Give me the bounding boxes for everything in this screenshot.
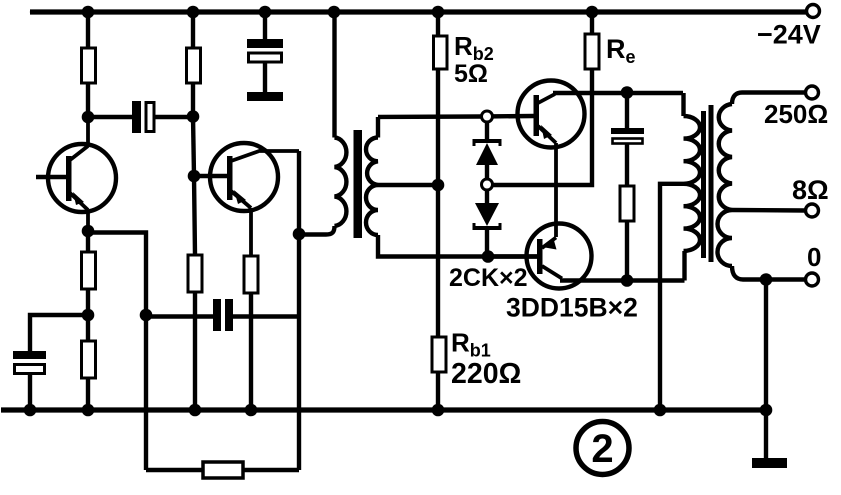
transistor Q1 [36, 117, 116, 232]
node Q1 collector [82, 111, 95, 124]
transformer T1 secondary [366, 117, 538, 257]
node RC bottom [621, 274, 634, 287]
wire R2 node to Q2 base node [193, 116, 194, 176]
wire 0 to ground [764, 280, 768, 459]
node Q4 base [482, 250, 495, 263]
node Q2 collector / transformer [293, 228, 306, 241]
node T1 primary rail [328, 6, 341, 19]
node C5 bottom rail [24, 404, 37, 417]
terminal 250ohm [806, 86, 819, 99]
wire Q3 collector [553, 91, 683, 95]
transformer T2 secondary [718, 93, 807, 280]
capacitor C2 coupling [132, 101, 193, 133]
terminal 0 [806, 273, 819, 286]
resistor Rb1 [432, 185, 446, 410]
resistor R1 (Q1 collector load) [82, 12, 96, 117]
ground bar C1 [247, 92, 283, 101]
svg-text:−24V: −24V [757, 20, 821, 50]
node R3/R4 junction [82, 309, 95, 322]
node T2 tap ground [654, 404, 667, 417]
capacitor C3 [213, 299, 233, 331]
resistor R7 [620, 186, 634, 281]
transformer T1 primary [299, 12, 346, 235]
ground symbol [752, 458, 787, 468]
node D1/D2 midpoint [482, 179, 493, 190]
node ground rail [760, 404, 773, 417]
capacitor C5 electrolytic bypass [13, 351, 46, 410]
wire bias line to Re [492, 69, 592, 185]
circled figure number 2 [576, 422, 629, 475]
transformer T2 core [701, 111, 706, 258]
terminal 8ohm [806, 204, 819, 217]
node R6 bottom rail [245, 404, 258, 417]
wire rail left arrow end [29, 10, 46, 15]
wire series RC branch [146, 314, 299, 318]
node secondary 0 junction [760, 273, 773, 286]
transistor Q2 [194, 143, 299, 256]
resistor Re [585, 12, 599, 69]
wire top supply rail [30, 9, 806, 14]
wire Q1 emitter to feedback column [88, 233, 146, 471]
wire bypass branch [30, 315, 88, 351]
node feedback column [140, 309, 153, 322]
transistor Q3 [518, 81, 585, 238]
node C1 rail [259, 6, 272, 19]
svg-text:8Ω: 8Ω [792, 175, 829, 205]
node RC top [621, 86, 634, 99]
resistor R4 (Q1 emitter lower) [82, 315, 96, 410]
svg-text:3DD15B×2: 3DD15B×2 [506, 293, 638, 323]
capacitor C4 [611, 93, 644, 187]
node C2 right [187, 110, 200, 123]
svg-text:2: 2 [591, 427, 613, 471]
wire Q3 base [481, 114, 534, 119]
resistor R5 (Q2 base lower) [188, 176, 202, 410]
node R4 bottom rail [82, 404, 95, 417]
wire Q1 collector to cap [88, 115, 132, 119]
resistor R2 (Q2 base upper) [187, 12, 201, 116]
diode D1 [474, 122, 500, 179]
node R2 rail [187, 6, 200, 19]
node Rb1 bottom rail [432, 404, 445, 417]
diode D2 [474, 190, 500, 251]
resistor R6 (Q2 emitter) [244, 256, 258, 410]
wire Q2 collector down [297, 151, 301, 470]
node center tap bias [432, 179, 445, 192]
transformer T2 primary [660, 93, 700, 410]
wire feedback bottom [146, 468, 299, 472]
terminal -24V [807, 5, 820, 18]
node R1 rail [82, 6, 95, 19]
svg-text:250Ω: 250Ω [764, 99, 828, 129]
node Q2 base [188, 170, 201, 183]
svg-text:Re: Re [606, 34, 636, 67]
wire bottom ground rail [1, 407, 766, 412]
node Q1 emitter [82, 225, 95, 238]
wire Q4 collector [560, 278, 685, 282]
resistor R3 (Q1 emitter upper) [82, 231, 96, 315]
transformer T1 core [354, 130, 363, 238]
svg-text:2CK×2: 2CK×2 [449, 264, 528, 292]
node Rb2 rail [432, 6, 445, 19]
svg-text:Rb1: Rb1 [451, 328, 491, 361]
resistor Rb2 [434, 12, 448, 185]
capacitor C1 rail decoupling [247, 12, 283, 92]
resistor R8 feedback [203, 462, 243, 478]
node R5 bottom rail [189, 404, 202, 417]
svg-text:0: 0 [807, 242, 821, 272]
node Q3 base open [482, 111, 493, 122]
node Re rail [586, 6, 599, 19]
transistor Q4 [488, 224, 592, 289]
svg-text:220Ω: 220Ω [451, 358, 521, 390]
svg-text:5Ω: 5Ω [454, 60, 488, 88]
